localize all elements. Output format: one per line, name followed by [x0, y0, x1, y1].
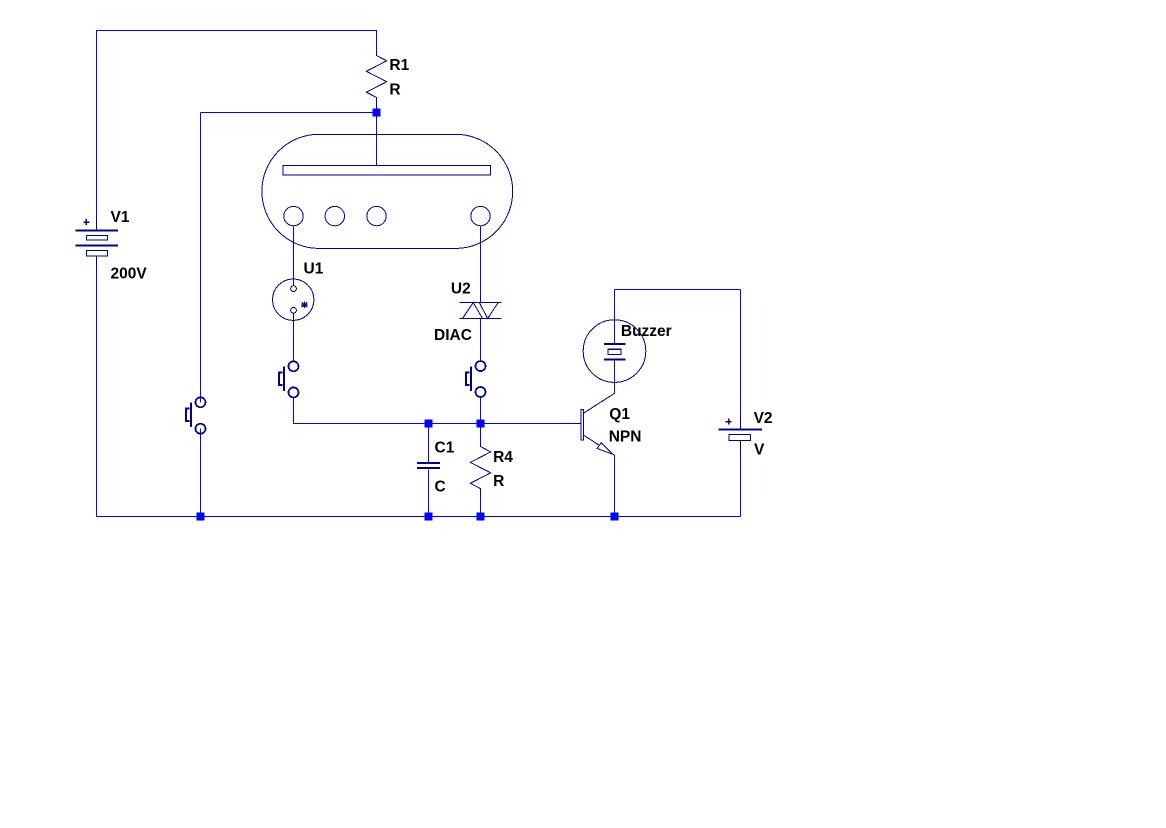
neon lamp U1 [273, 279, 314, 320]
svg-text:Q1: Q1 [609, 406, 630, 423]
svg-text:200V: 200V [111, 266, 148, 283]
svg-text:V2: V2 [754, 410, 773, 427]
wire U2 to switch S3 [480, 319, 482, 361]
battery V1 [75, 219, 118, 267]
junction R4 top [477, 420, 485, 428]
V2 plus sign [726, 419, 732, 425]
junction S1 bottom rail [197, 513, 205, 521]
junction C1 bottom rail [425, 513, 433, 521]
capacitor C1 [417, 463, 440, 468]
junction R4 bottom rail [477, 513, 485, 521]
wire V1 bottom vertical [96, 267, 98, 517]
wire R4 bottom lead [480, 493, 482, 517]
svg-text:C: C [435, 479, 446, 496]
wire junction to tube plate [376, 113, 378, 166]
tube plate bar [283, 166, 490, 175]
wire C1 bottom lead [428, 470, 430, 517]
svg-text:U2: U2 [451, 281, 471, 298]
svg-text:V1: V1 [111, 209, 130, 226]
svg-text:R1: R1 [389, 57, 409, 74]
svg-text:C1: C1 [435, 440, 455, 457]
switch S1 (pushbutton) [186, 397, 206, 433]
buzzer [583, 320, 646, 383]
tube pin 1 [284, 206, 303, 225]
wire tube pin1 to U1 [293, 226, 295, 280]
svg-text:R: R [493, 473, 504, 490]
wire S3 to node [480, 397, 482, 423]
tube body (starter) [262, 134, 513, 248]
wire buzzer top horizontal [615, 289, 741, 291]
switch S2 (pushbutton) [279, 361, 299, 397]
wire bottom rail [97, 516, 741, 518]
svg-text:R: R [389, 81, 400, 98]
resistor R1 [366, 52, 386, 108]
junction C1 top [425, 420, 433, 428]
resistor R4 [470, 444, 490, 493]
wire R4 top lead [480, 424, 482, 445]
wire C1 top lead [428, 424, 430, 463]
V1 plus sign [83, 219, 89, 225]
svg-text:Buzzer: Buzzer [621, 323, 672, 340]
tube pin 2 [325, 206, 344, 225]
wire U1 to switch S2 [293, 320, 295, 361]
tube pin 3 [367, 206, 386, 225]
svg-text:NPN: NPN [609, 429, 642, 446]
svg-text:V: V [754, 442, 765, 459]
svg-text:U1: U1 [304, 260, 324, 277]
battery V2 [719, 415, 762, 454]
tube pin 4 [471, 206, 490, 225]
svg-text:DIAC: DIAC [434, 327, 472, 344]
wire R1 bottom to junction [376, 108, 378, 113]
wire horizontal y=112 [201, 112, 377, 114]
transistor Q1 [574, 393, 615, 455]
diac U2 [460, 303, 502, 319]
wire buzzer top [614, 290, 616, 345]
wire top horizontal from V1 to R1 [97, 31, 377, 220]
U1 star mark [301, 302, 308, 309]
wire S1 bottom terminal to rail [200, 429, 202, 517]
wire tube pin4 to U2 [480, 226, 482, 302]
wire buzzer bottom to Q1 collector [614, 360, 616, 394]
wire into S1 top terminal [200, 113, 202, 403]
junction below R1 [373, 109, 381, 117]
switch S3 (pushbutton) [466, 361, 486, 397]
wire S2 to Q1 base [294, 398, 575, 424]
svg-text:R4: R4 [493, 449, 513, 466]
wire Q1 emitter down [614, 455, 616, 516]
junction Q1 emitter rail [611, 513, 619, 521]
wire right vertical to V2 [740, 290, 742, 517]
